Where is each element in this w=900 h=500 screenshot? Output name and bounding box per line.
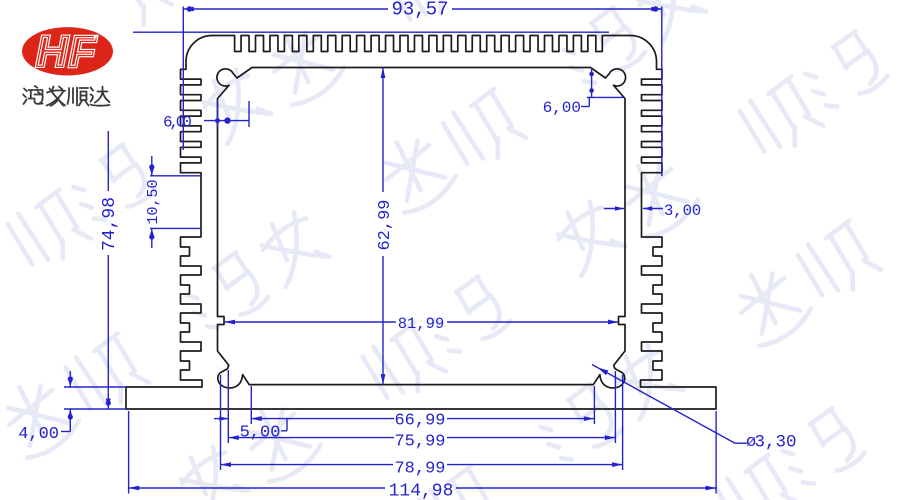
svg-text:3,30: 3,30 <box>755 433 797 453</box>
svg-text:81,99: 81,99 <box>398 315 445 333</box>
svg-text:6,00: 6,00 <box>543 99 581 117</box>
svg-text:74,98: 74,98 <box>100 197 120 251</box>
svg-text:62,99: 62,99 <box>376 199 395 250</box>
svg-text:4,00: 4,00 <box>18 425 59 444</box>
svg-text:75,99: 75,99 <box>394 433 445 452</box>
svg-text:93,57: 93,57 <box>391 0 448 21</box>
svg-text:78,99: 78,99 <box>394 460 445 479</box>
svg-text:114,98: 114,98 <box>389 482 454 500</box>
svg-text:3,00: 3,00 <box>664 202 701 220</box>
svg-text:HF: HF <box>36 28 97 77</box>
svg-text:10,50: 10,50 <box>145 179 162 224</box>
svg-text:5,00: 5,00 <box>240 424 281 443</box>
svg-text:6,00: 6,00 <box>163 114 191 132</box>
svg-text:66,99: 66,99 <box>394 412 445 431</box>
